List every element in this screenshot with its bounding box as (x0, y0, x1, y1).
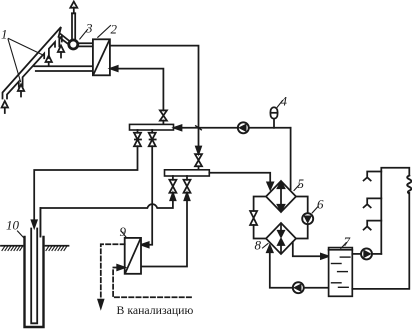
arrowhead into diamond 5 top-left (267, 182, 273, 189)
arrowhead into upper manifold right end (174, 125, 182, 130)
svg-text:8: 8 (255, 238, 262, 253)
wire: pump line to upper manifold (182, 127, 238, 129)
valves below lower manifold (from HX9) (184, 180, 191, 193)
collector riser arrow (stub 3) (58, 46, 64, 53)
dashed drain from HX9 left-top (101, 244, 125, 299)
vent pipe of 3 (double line up) (71, 13, 73, 39)
svg-text:2: 2 (111, 22, 118, 37)
storage tank 7 (329, 248, 353, 297)
expansion tank 4 (271, 107, 278, 118)
tank circulation pump (bottom) (293, 282, 304, 293)
collector riser arrow (bottom end) (2, 101, 8, 108)
up arrowhead from well return (170, 193, 175, 200)
svg-text:6: 6 (317, 197, 324, 212)
solar collector array 1: band lower line with stubs (7, 82, 19, 99)
wire: down to evaporator 5 (290, 128, 292, 190)
heating element zigzag (407, 176, 411, 193)
DHW riser and circulation loop (381, 168, 409, 254)
collector return pipe to heat exchanger 2 (double line) (34, 65, 93, 67)
double arrow inside 5 (280, 186, 282, 207)
arrowhead into HX2 right-bottom (110, 66, 118, 71)
arrowhead into tank left (321, 254, 329, 259)
up arrowhead into condenser 8 bottom-left (267, 245, 273, 252)
collector riser arrow (stub 2) (46, 56, 52, 63)
collector riser arrow (stub 1) (18, 85, 24, 92)
wire: lower manifold to evaporator 5 (209, 173, 270, 183)
down arrowhead to sewage (98, 300, 103, 308)
wire: HX9 bottom to lower manifold (141, 200, 187, 266)
heat exchanger 9 (125, 238, 141, 274)
wire: manifold to HX9 (149, 146, 152, 245)
down arrowhead above valve (196, 147, 201, 154)
arrows inside 8 (280, 224, 282, 232)
arrowhead into HX9 left-bottom (117, 265, 125, 270)
svg-text:В канализацию: В канализацию (117, 303, 194, 317)
air separator 3 (circle) (69, 40, 78, 49)
pipe from collector top to air separator 3 (double line) (60, 34, 70, 42)
compressor pump 6 (right side of loop) (296, 197, 308, 214)
crossing tick at pump line (196, 126, 202, 130)
ground line right + hatching (46, 245, 69, 247)
wire: condenser 8 to tank 7 (293, 242, 321, 256)
expansion valve (left side of heat pump loop) (254, 197, 266, 211)
upper manifold bar (130, 124, 174, 130)
ground line left + hatching (1, 245, 23, 247)
valves below upper manifold (to HX9) (149, 133, 156, 147)
valves below upper manifold (to well) (134, 133, 141, 147)
arrowhead into HX9 right-top (141, 242, 149, 247)
wire: well return line with hop (40, 200, 173, 236)
well inner tube (31, 229, 37, 324)
svg-text:3: 3 (85, 21, 93, 36)
condenser diamond 8 (266, 223, 296, 254)
water level dashes in tank (332, 257, 351, 287)
svg-text:7: 7 (344, 234, 351, 249)
up arrowhead from HX9 return (184, 193, 189, 200)
arrowhead into well inner tube (32, 220, 37, 227)
wire: tank bottom to condenser 8 via pump (270, 252, 293, 288)
evaporator diamond 5 (266, 181, 296, 212)
DHW pump right of tank (352, 253, 361, 255)
svg-text:1: 1 (1, 27, 8, 42)
wire: HX2 top supply to the right, down to lower manifold (110, 46, 199, 147)
pump (circulation, solar loop) (238, 122, 249, 133)
valve above upper manifold (160, 110, 167, 120)
wire: well supply line (34, 146, 137, 220)
supply pipe from 3 to heat exchanger 2 (double line) (78, 42, 93, 44)
vent arrow (open, up) (73, 8, 75, 14)
dashed fresh-water line into HX9 left-bottom (113, 268, 191, 298)
leader line to stub2 arrow (9, 39, 44, 56)
svg-text:5: 5 (298, 176, 305, 191)
well 10 (borehole casing) (25, 237, 44, 327)
water tap 1 (364, 172, 382, 181)
solar collector array 1: band upper line (3, 27, 62, 99)
valves below lower manifold (from well) (169, 180, 176, 193)
lower manifold bar (165, 170, 210, 176)
annulus pipe into well (39, 208, 41, 237)
water tap 2 (364, 198, 382, 207)
water tap 3 (364, 221, 382, 230)
leader line to stub1 arrow (8, 39, 21, 82)
heat exchanger 2 (93, 39, 110, 75)
svg-text:10: 10 (6, 218, 20, 233)
wire: return into HX2 (arrow left) from manifold riser (117, 69, 163, 111)
valve on lower manifold top (195, 154, 202, 166)
